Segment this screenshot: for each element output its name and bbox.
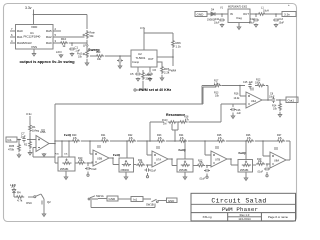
svg-text:FetQ: FetQ bbox=[113, 153, 121, 157]
svg-text:VDD: VDD bbox=[31, 25, 38, 29]
svg-text:U5B: U5B bbox=[97, 157, 102, 161]
svg-text:SW1B: SW1B bbox=[146, 203, 154, 207]
svg-text:LED: LED bbox=[10, 183, 17, 187]
svg-text:11/1/2014: 11/1/2014 bbox=[238, 217, 251, 221]
svg-text:U4A: U4A bbox=[251, 99, 256, 103]
svg-text:.1uF: .1uF bbox=[236, 112, 241, 115]
svg-text:FetQ: FetQ bbox=[239, 151, 247, 155]
svg-text:GND: GND bbox=[109, 197, 117, 201]
svg-text:OSC: OSC bbox=[26, 201, 32, 205]
svg-text:Vreg: Vreg bbox=[236, 16, 242, 20]
svg-text:In1: In1 bbox=[133, 198, 138, 202]
svg-text:1.1k: 1.1k bbox=[176, 45, 182, 49]
svg-text:RA1: RA1 bbox=[17, 35, 23, 39]
svg-text:C6: C6 bbox=[153, 68, 157, 72]
svg-text:LFO: LFO bbox=[56, 50, 62, 54]
svg-text:3.3v: 3.3v bbox=[140, 26, 146, 30]
svg-text:3.3v: 3.3v bbox=[26, 112, 32, 116]
svg-text:Circuit Salad: Circuit Salad bbox=[211, 197, 266, 204]
svg-text:Page # or name: Page # or name bbox=[268, 215, 288, 219]
svg-text:OUT: OUT bbox=[148, 57, 154, 61]
svg-text:SW1A: SW1A bbox=[96, 194, 104, 198]
svg-text:U7B: U7B bbox=[215, 158, 220, 162]
svg-text:.01uF: .01uF bbox=[91, 168, 98, 171]
svg-text:RA2: RA2 bbox=[46, 35, 52, 39]
svg-text:PWM Phaser: PWM Phaser bbox=[222, 206, 258, 213]
svg-text:U8A: U8A bbox=[274, 159, 279, 163]
svg-text:Resonance: Resonance bbox=[166, 113, 185, 117]
svg-text:2N5484: 2N5484 bbox=[60, 168, 69, 171]
svg-text:.1uF: .1uF bbox=[20, 135, 26, 139]
svg-text:4.7k: 4.7k bbox=[17, 199, 23, 203]
svg-text:Out1: Out1 bbox=[288, 98, 295, 102]
svg-text:MCP1804(T)-3302: MCP1804(T)-3302 bbox=[228, 7, 248, 9]
svg-text:.01uF: .01uF bbox=[150, 170, 157, 173]
svg-text:U7A: U7A bbox=[156, 158, 161, 162]
svg-text:OUT: OUT bbox=[243, 12, 249, 16]
svg-text:10uF: 10uF bbox=[249, 22, 255, 25]
svg-text:100k: 100k bbox=[255, 81, 261, 84]
svg-text:FetQ: FetQ bbox=[179, 148, 187, 152]
svg-text:10uH: 10uH bbox=[263, 10, 269, 13]
svg-text:FetQ: FetQ bbox=[64, 133, 72, 137]
svg-text:GND: GND bbox=[168, 199, 174, 203]
svg-text:PWM set at 40 KHz: PWM set at 40 KHz bbox=[139, 88, 171, 92]
svg-text:470k: 470k bbox=[8, 148, 15, 152]
svg-text:220k: 220k bbox=[146, 77, 153, 81]
svg-text:+: + bbox=[288, 3, 290, 7]
svg-text:R09: R09 bbox=[96, 51, 101, 54]
svg-text:output is approx 0v-3v swing: output is approx 0v-3v swing bbox=[20, 59, 76, 64]
svg-text:10.4k: 10.4k bbox=[234, 97, 241, 100]
svg-text:U5A: U5A bbox=[40, 130, 46, 134]
svg-text:C15 .1uF: C15 .1uF bbox=[243, 81, 253, 84]
svg-text:GND: GND bbox=[197, 13, 205, 17]
svg-text:2N5484: 2N5484 bbox=[121, 169, 130, 172]
svg-text:In1: In1 bbox=[8, 138, 13, 142]
svg-text:10uF: 10uF bbox=[214, 22, 220, 25]
svg-text:PIC12F1840: PIC12F1840 bbox=[24, 35, 41, 39]
svg-text:RA0: RA0 bbox=[17, 29, 23, 33]
svg-text:3.3v: 3.3v bbox=[284, 13, 290, 17]
svg-text:.01uF: .01uF bbox=[257, 171, 264, 174]
svg-text:10uF: 10uF bbox=[269, 96, 275, 99]
svg-text:.01uF: .01uF bbox=[199, 178, 206, 181]
svg-text:R10: R10 bbox=[61, 37, 67, 41]
svg-text:IN: IN bbox=[230, 12, 233, 16]
svg-text:R16: R16 bbox=[234, 93, 239, 96]
svg-text:C5: C5 bbox=[130, 72, 134, 76]
svg-text:XXLng: XXLng bbox=[202, 215, 211, 219]
svg-text:1Meg: 1Meg bbox=[32, 129, 39, 133]
svg-text:1.0k: 1.0k bbox=[214, 82, 219, 85]
svg-text:2N5484: 2N5484 bbox=[240, 169, 249, 172]
svg-text:RA5: RA5 bbox=[46, 29, 52, 33]
svg-text:RA3/MCLR: RA3/MCLR bbox=[17, 41, 32, 45]
svg-text:R4: R4 bbox=[17, 191, 21, 195]
svg-text:2N5484: 2N5484 bbox=[179, 169, 188, 172]
svg-text:RA0: RA0 bbox=[46, 41, 52, 45]
svg-text:10uF: 10uF bbox=[279, 22, 285, 25]
svg-text:VSS: VSS bbox=[31, 45, 37, 49]
svg-text:PWM: PWM bbox=[169, 69, 177, 73]
svg-text:Q2: Q2 bbox=[47, 200, 51, 204]
svg-text:TL5001: TL5001 bbox=[136, 56, 146, 60]
svg-text:1M: 1M bbox=[163, 123, 166, 126]
svg-text:Comp: Comp bbox=[132, 60, 140, 64]
svg-text:3.3v: 3.3v bbox=[25, 6, 32, 10]
